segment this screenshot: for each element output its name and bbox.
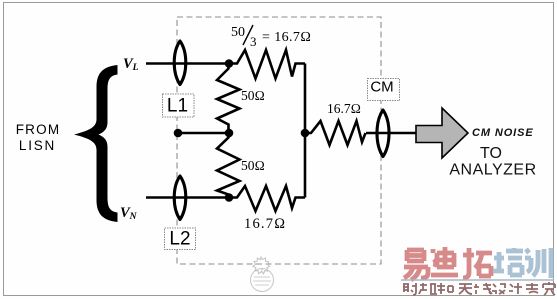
svg-text:50Ω: 50Ω [241, 158, 265, 173]
brace [74, 65, 118, 222]
svg-text:CM: CM [370, 79, 393, 96]
svg-text:LISN: LISN [19, 138, 56, 153]
probe window masks [174, 41, 186, 85]
svg-text:L2: L2 [169, 229, 190, 250]
char Pei [493, 248, 523, 275]
svg-text:VL: VL [123, 56, 139, 73]
resistor 16.7 ohm (output) [305, 121, 366, 145]
wire right vertical bus [304, 64, 307, 198]
resistor 50 ohm upper [217, 64, 240, 134]
node junction top [225, 59, 234, 68]
faint seal stamp [251, 257, 274, 292]
resistor 50 ohm lower [217, 133, 240, 198]
svg-text:FROM: FROM [16, 122, 61, 137]
wire VL from brace to junction [146, 62, 229, 65]
svg-text:16.7Ω: 16.7Ω [244, 216, 287, 232]
svg-text:TO: TO [480, 145, 502, 162]
watermark big text: Yi Di Tuo (pink) Pei Xun (blue) [404, 247, 492, 280]
svg-text:VN: VN [120, 205, 138, 222]
char Yi [404, 250, 428, 280]
resistor 50/3 = 16.7 ohm (top) [229, 50, 305, 79]
svg-text:ANALYZER: ANALYZER [449, 162, 536, 179]
wire VN from brace to junction [146, 196, 229, 199]
svg-text:50: 50 [231, 25, 245, 40]
char Di [431, 247, 458, 275]
resistor 16.7 ohm (bottom) [229, 186, 305, 211]
node center tap right [225, 129, 234, 138]
label box CM [368, 79, 400, 101]
svg-text:= 16.7Ω: = 16.7Ω [262, 30, 311, 45]
FROM LISN label [16, 122, 61, 153]
char Xun [525, 248, 551, 278]
label box L1 [163, 94, 195, 117]
svg-text:50Ω: 50Ω [241, 88, 265, 103]
label box L2 [165, 228, 196, 250]
wire output to arrow [366, 132, 417, 135]
svg-text:16.7Ω: 16.7Ω [327, 101, 361, 116]
node junction bottom [225, 193, 234, 202]
watermark divider line [401, 279, 554, 281]
value label 50/3 = 16.7 ohm [231, 25, 311, 49]
wire center tap [178, 132, 229, 135]
node output tap [301, 129, 310, 138]
current probe CM ellipse [377, 110, 389, 157]
dashed measurement boundary box [177, 17, 381, 264]
current probe L2 ellipse [174, 176, 186, 220]
char Tuo [463, 248, 492, 278]
svg-text:3: 3 [250, 34, 257, 49]
svg-text:L1: L1 [167, 96, 188, 117]
watermark small text row [403, 282, 555, 295]
arrow to analyzer [416, 108, 468, 158]
current probe L1 ellipse [174, 41, 186, 85]
node center tap left [174, 129, 183, 138]
svg-text:CM NOISE: CM NOISE [472, 127, 534, 139]
